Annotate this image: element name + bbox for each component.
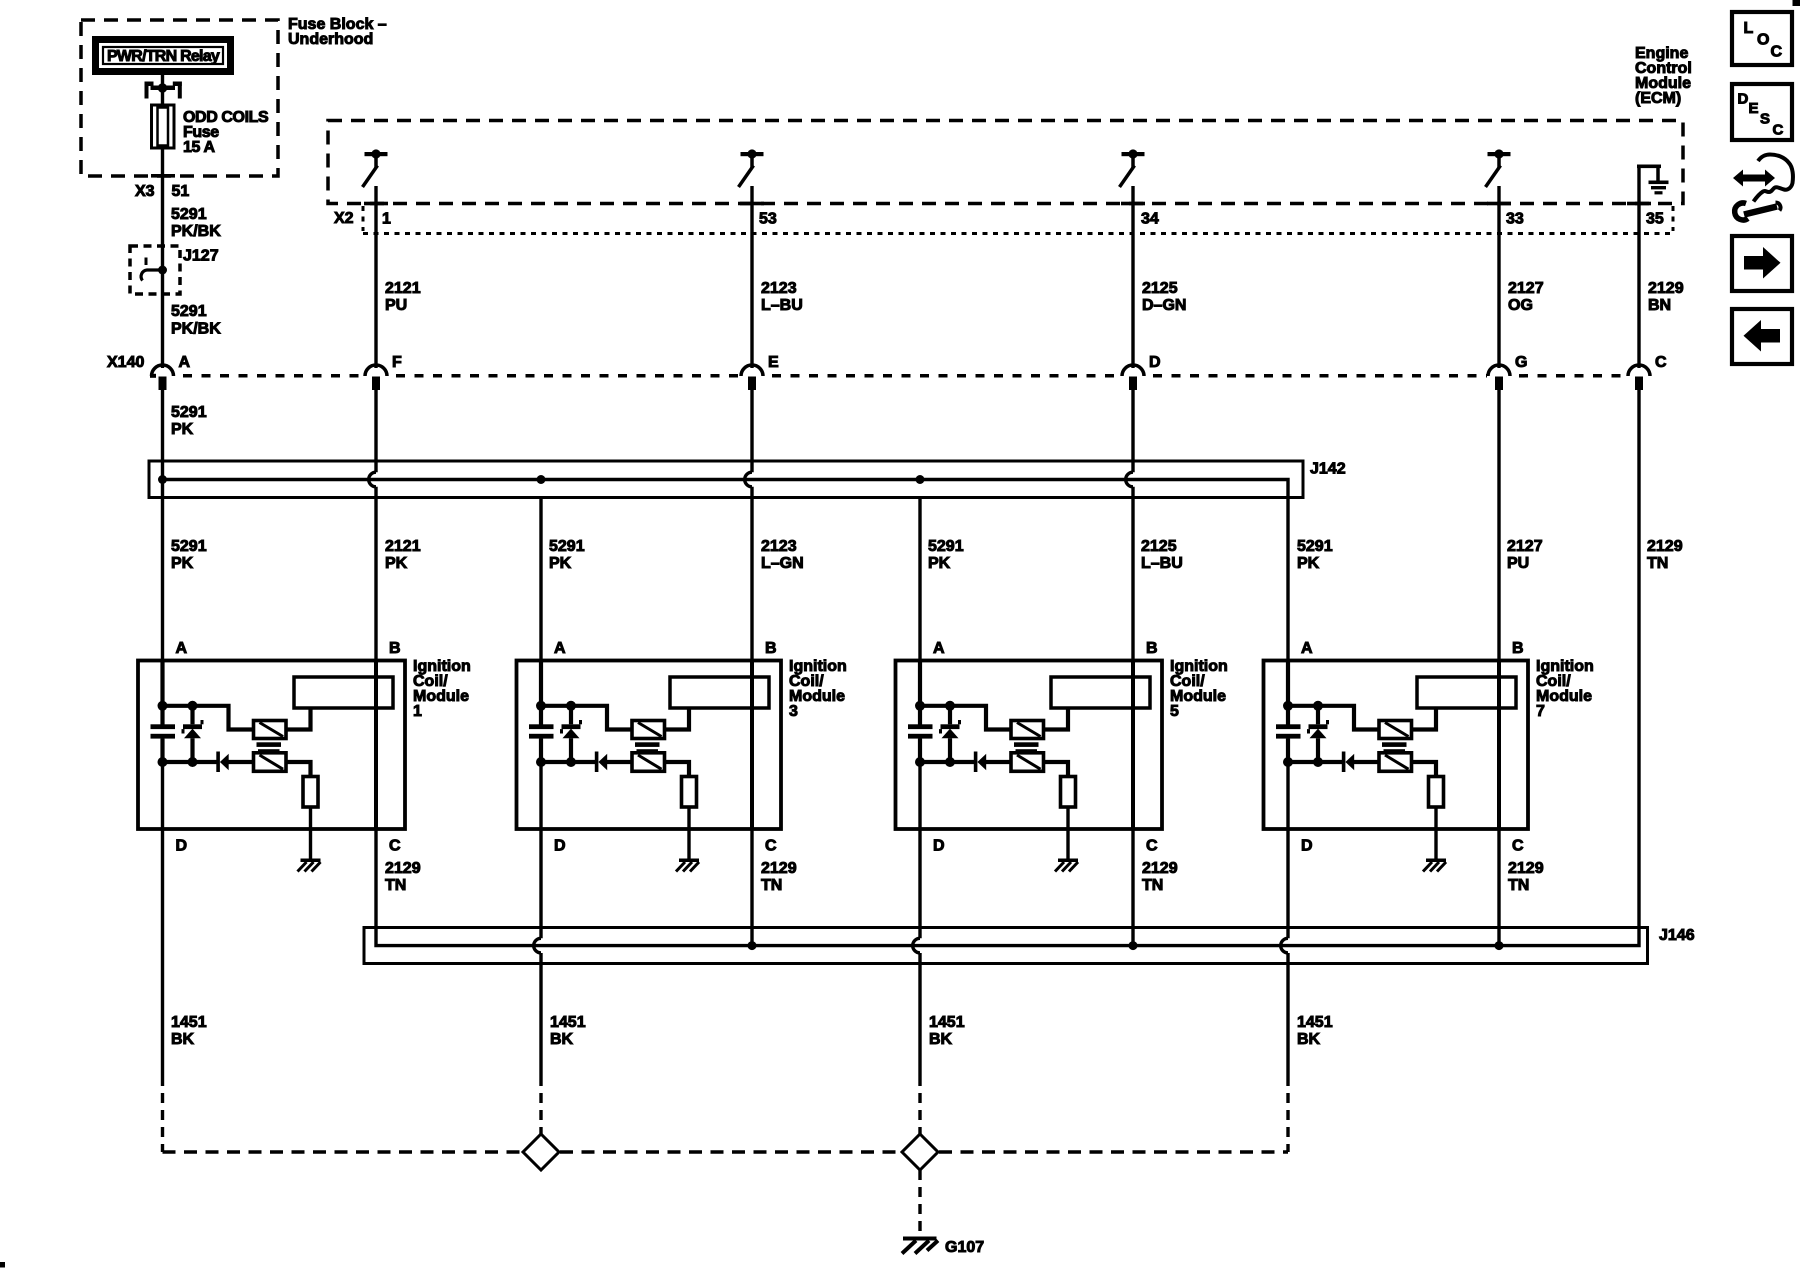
connector X140 pin A xyxy=(152,354,191,390)
wire 2127 OG (ECM 33 to X140 G) xyxy=(1497,186,1500,368)
label: Fuse Block - Underhood xyxy=(288,16,387,48)
svg-text:C: C xyxy=(1655,354,1667,371)
svg-text:A: A xyxy=(933,640,945,657)
wire 5291 PK/BK (fuse to X140 A) xyxy=(161,148,164,368)
wire below capacitor (module 1) xyxy=(160,739,164,762)
svg-text:BK: BK xyxy=(929,1031,953,1048)
splice S1 (diamond) xyxy=(523,1134,559,1170)
svg-text:TN: TN xyxy=(385,877,406,894)
svg-text:2127: 2127 xyxy=(1507,538,1543,555)
svg-text:2123: 2123 xyxy=(761,280,797,297)
svg-text:5: 5 xyxy=(1170,703,1179,720)
connector X140 pin E xyxy=(741,354,779,390)
svg-text:51: 51 xyxy=(172,183,190,200)
svg-text:D: D xyxy=(1738,91,1749,108)
wire 2121 PK (X140 F to module1 B, hop over J142) xyxy=(369,390,376,929)
wire 5291 PK (J142 to module5 A) xyxy=(918,498,921,728)
svg-text:2125: 2125 xyxy=(1141,538,1177,555)
svg-text:C: C xyxy=(765,838,777,855)
svg-text:15 A: 15 A xyxy=(183,139,215,156)
svg-text:S: S xyxy=(1760,111,1770,128)
driver block (module 7 lower) xyxy=(1379,753,1412,772)
wire 5291 PK (X140 A through J142 to module1 A) xyxy=(161,390,164,727)
wire label 2129 TN (module 5 pin C) xyxy=(1142,860,1178,894)
resistor R5 xyxy=(1061,777,1076,808)
pin label X3 / 51 xyxy=(135,183,189,200)
svg-text:Underhood: Underhood xyxy=(288,31,373,48)
wire pin B through module 1 xyxy=(374,660,378,829)
svg-text:2121: 2121 xyxy=(385,538,421,555)
wire (module 1 top row) xyxy=(163,706,254,730)
svg-text:F: F xyxy=(392,354,402,371)
svg-text:D: D xyxy=(933,838,945,855)
ignition coil/module 1 (box) xyxy=(138,661,405,830)
wire 2123 L-BU (ECM 53 to X140 E) xyxy=(750,186,753,368)
wire label 5291 PK/BK (lower) xyxy=(171,303,221,338)
wire label 5291 PK xyxy=(171,404,207,438)
wire pin A into module 1 xyxy=(160,660,164,727)
wire label 2123 L–GN xyxy=(761,538,804,572)
svg-text:1451: 1451 xyxy=(171,1014,207,1031)
chassis ground (module 1) xyxy=(298,859,321,872)
junction (module5 C to J146) xyxy=(1129,941,1138,950)
wire (module 7 top row) xyxy=(1288,706,1379,730)
wire label 2129 BN xyxy=(1648,280,1684,314)
sidebar DESC box xyxy=(1732,84,1792,140)
svg-text:34: 34 xyxy=(1141,211,1159,228)
wire label 2121 PK xyxy=(385,538,421,572)
svg-text:OG: OG xyxy=(1508,297,1533,314)
wire (resistor to ground, module 1) xyxy=(309,807,312,859)
svg-text:C: C xyxy=(1146,838,1158,855)
svg-text:PK: PK xyxy=(171,555,194,572)
wire 1451 BK (module5 D, dashed) xyxy=(918,1076,921,1135)
wire (resistor to ground, module 5) xyxy=(1066,807,1069,859)
svg-text:TN: TN xyxy=(1647,555,1668,572)
corner mark (top right) xyxy=(1793,0,1800,6)
connector X140 pin D xyxy=(1122,354,1161,390)
wire label 1451 BK xyxy=(550,1014,586,1048)
tick: wire crossing fuse block edge xyxy=(151,174,175,178)
svg-text:C: C xyxy=(1773,122,1784,139)
svg-text:B: B xyxy=(1512,640,1524,657)
svg-text:J142: J142 xyxy=(1310,461,1346,478)
label: Ignition Coil/Module 7 xyxy=(1536,658,1594,720)
svg-text:C: C xyxy=(389,838,401,855)
svg-text:(ECM): (ECM) xyxy=(1635,90,1681,107)
zener diode VR7 xyxy=(1309,706,1328,762)
svg-text:D: D xyxy=(1149,354,1161,371)
svg-text:B: B xyxy=(1146,640,1158,657)
svg-text:2129: 2129 xyxy=(1142,860,1178,877)
svg-text:TN: TN xyxy=(1508,877,1529,894)
label: ODD COILS Fuse 15 A xyxy=(183,109,269,156)
splice run (dashed horizontal) xyxy=(163,1150,1289,1153)
diode D1 xyxy=(216,752,228,773)
svg-text:D: D xyxy=(554,838,566,855)
svg-text:BK: BK xyxy=(550,1031,574,1048)
junction (module7 C to J146) xyxy=(1495,941,1504,950)
corner mark (bottom left) xyxy=(0,1262,5,1268)
svg-text:BK: BK xyxy=(1297,1031,1321,1048)
connector X2 row (dashed + dotted) xyxy=(363,206,1673,234)
junction dots (module 7) xyxy=(1283,701,1323,767)
sidebar next-arrow box xyxy=(1732,236,1792,291)
svg-text:PK: PK xyxy=(171,421,194,438)
sidebar diagnostic icon (arrow + wrench) xyxy=(1733,155,1793,221)
svg-text:D–GN: D–GN xyxy=(1142,297,1186,314)
pin numbers 1 53 34 33 35 xyxy=(382,211,1664,228)
diode D3 xyxy=(595,752,607,773)
wire label 5291 PK/BK (upper) xyxy=(171,206,221,240)
svg-text:C: C xyxy=(1771,44,1783,61)
svg-text:J127: J127 xyxy=(183,248,219,265)
resistor R7 xyxy=(1429,777,1444,808)
svg-text:L–BU: L–BU xyxy=(1141,555,1183,572)
wire 1451 BK (module7 D, dashed) xyxy=(1286,1076,1289,1152)
ignition coil/module 3 (box) xyxy=(517,661,782,830)
resistor R3 xyxy=(682,777,697,808)
sidebar back-arrow box xyxy=(1732,309,1792,364)
junction (A wire to J142) xyxy=(158,475,167,484)
driver U1 (ECM pin 1) xyxy=(363,149,388,187)
svg-text:BN: BN xyxy=(1648,297,1671,314)
svg-text:5291: 5291 xyxy=(171,206,207,223)
svg-text:35: 35 xyxy=(1646,211,1664,228)
svg-text:PU: PU xyxy=(1507,555,1529,572)
svg-text:PK: PK xyxy=(549,555,572,572)
capacitor C1 xyxy=(151,724,176,738)
svg-text:A: A xyxy=(1301,640,1313,657)
wire label 5291 PK xyxy=(928,538,964,572)
svg-text:J146: J146 xyxy=(1659,927,1695,944)
svg-text:E: E xyxy=(1749,100,1759,117)
wire pin A into module 5 xyxy=(918,660,922,727)
wire label 5291 PK xyxy=(171,538,207,572)
wire 2129 TN (X140 C to J146) xyxy=(1637,390,1640,929)
wire (module 5 lower row) xyxy=(920,760,1011,764)
junction dots (module 5) xyxy=(915,701,955,767)
svg-text:PK/BK: PK/BK xyxy=(171,223,221,240)
svg-text:PK: PK xyxy=(928,555,951,572)
wire (module 5 top row) xyxy=(920,706,1011,730)
fuse clip terminals xyxy=(145,82,182,99)
coil primary L7 xyxy=(1417,677,1516,708)
wire (driver to coil, module 7) xyxy=(1412,708,1437,730)
label: Ignition Coil/Module 1 xyxy=(413,658,471,720)
connector X140 pin G xyxy=(1488,354,1527,390)
svg-text:PK: PK xyxy=(385,555,408,572)
fuse F1 ODD COILS 15 A xyxy=(152,105,175,148)
zener diode VR3 xyxy=(562,706,581,762)
svg-text:1451: 1451 xyxy=(1297,1014,1333,1031)
zener diode VR1 xyxy=(183,706,202,762)
svg-text:D: D xyxy=(176,838,188,855)
svg-text:2129: 2129 xyxy=(1647,538,1683,555)
wire (module5 A line to D) xyxy=(913,739,920,1076)
splice J127 (dashed box) xyxy=(130,246,180,294)
isolation bars (module 5) xyxy=(1014,742,1039,753)
svg-text:PK/BK: PK/BK xyxy=(171,321,221,338)
wire (module 3 top row) xyxy=(541,706,632,730)
driver block (module 7 upper) xyxy=(1379,721,1412,739)
resistor R1 xyxy=(303,777,318,808)
ground (ECM internal, pin 35) xyxy=(1637,165,1669,195)
svg-text:E: E xyxy=(768,354,779,371)
wire (module 1 lower row) xyxy=(163,760,254,764)
wire label 2123 L-BU xyxy=(761,280,803,314)
J146 internal bus wire xyxy=(376,927,1639,946)
svg-text:5291: 5291 xyxy=(1297,538,1333,555)
capacitor C5 xyxy=(908,724,933,738)
junction dots (module 3) xyxy=(536,701,576,767)
junction (J142 to module 3 feed) xyxy=(537,475,546,484)
wire 1451 BK (module3 D, dashed) xyxy=(539,1076,542,1135)
wire below capacitor (module 5) xyxy=(918,739,922,762)
ignition coil/module 5 (box) xyxy=(896,661,1163,830)
junction dots (module 1) xyxy=(158,701,198,767)
isolation bars (module 3) xyxy=(635,742,660,753)
svg-text:2129: 2129 xyxy=(1508,860,1544,877)
wire label 2121 PU xyxy=(385,280,421,314)
svg-text:1451: 1451 xyxy=(929,1014,965,1031)
svg-text:1: 1 xyxy=(382,211,391,228)
svg-text:2129: 2129 xyxy=(1648,280,1684,297)
svg-text:2125: 2125 xyxy=(1142,280,1178,297)
sidebar LOC box xyxy=(1732,12,1792,65)
wire 2125 L-BU (X140 D to module5 B, hop over J142) xyxy=(1126,390,1133,946)
svg-text:1451: 1451 xyxy=(550,1014,586,1031)
wire pin B through module 5 xyxy=(1131,660,1135,829)
connector X140 pin F xyxy=(365,354,402,390)
wire (resistor to ground, module 3) xyxy=(687,807,690,859)
wire label 2125 D-GN xyxy=(1142,280,1186,314)
svg-text:5291: 5291 xyxy=(171,303,207,320)
svg-text:G: G xyxy=(1515,354,1527,371)
wire (driver to coil, module 3) xyxy=(665,708,690,730)
connector X140 pin C xyxy=(1628,354,1667,390)
svg-text:L–BU: L–BU xyxy=(761,297,803,314)
driver block (module 1 lower) xyxy=(254,753,287,772)
connector X140 dashed row xyxy=(150,374,1627,378)
chassis ground (module 3) xyxy=(676,859,699,872)
wire label 2129 TN (module 3 pin C) xyxy=(761,860,797,894)
ticks: wires crossing ECM edge xyxy=(364,202,1651,206)
wire label 2125 L–BU xyxy=(1141,538,1183,572)
driver block (module 3 upper) xyxy=(632,721,665,739)
chassis ground (module 7) xyxy=(1423,859,1446,872)
wire 2125 D-GN (ECM 34 to X140 D) xyxy=(1131,186,1134,368)
svg-text:2129: 2129 xyxy=(761,860,797,877)
svg-text:C: C xyxy=(1512,838,1524,855)
wire (driver to resistor, module 1) xyxy=(286,762,311,777)
wire (resistor to ground, module 7) xyxy=(1434,807,1437,859)
label: Ignition Coil/Module 5 xyxy=(1170,658,1228,720)
label: Engine Control Module (ECM) xyxy=(1635,45,1692,107)
diode D7 xyxy=(1342,752,1354,773)
wire (driver to coil, module 1) xyxy=(286,708,311,730)
svg-text:5291: 5291 xyxy=(171,538,207,555)
svg-text:TN: TN xyxy=(761,877,782,894)
junction (J142 to module 5 feed) xyxy=(916,475,925,484)
wire pin A into module 3 xyxy=(539,660,543,727)
driver block (module 5 lower) xyxy=(1011,753,1044,772)
fuse block underhood (dashed enclosure) xyxy=(81,20,278,176)
wire (splice to ground G107, dashed) xyxy=(918,1170,921,1236)
svg-text:X3: X3 xyxy=(135,183,155,200)
svg-text:B: B xyxy=(765,640,777,657)
wire below capacitor (module 3) xyxy=(539,739,543,762)
wire label 1451 BK xyxy=(1297,1014,1333,1048)
wire (driver to resistor, module 5) xyxy=(1044,762,1069,777)
ground G107 xyxy=(902,1237,938,1254)
wire 5291 PK (J142 to module3 A) xyxy=(539,498,542,728)
svg-text:L–GN: L–GN xyxy=(761,555,804,572)
wire label 2127 PU xyxy=(1507,538,1543,572)
coil primary L3 xyxy=(670,677,769,708)
svg-text:53: 53 xyxy=(759,211,777,228)
svg-text:2129: 2129 xyxy=(385,860,421,877)
svg-text:3: 3 xyxy=(789,703,798,720)
splice pack J142 (bus) xyxy=(149,461,1303,498)
wire (relay to fuse) xyxy=(161,75,164,105)
wire (driver to resistor, module 7) xyxy=(1412,762,1437,777)
J142 internal bus wire xyxy=(163,480,1289,501)
wire label 2129 TN (module 7 pin C) xyxy=(1508,860,1544,894)
wire (driver to resistor, module 3) xyxy=(665,762,690,777)
wire label 5291 PK xyxy=(1297,538,1333,572)
relay K1 PWR/TRN Relay xyxy=(96,40,231,72)
svg-text:PK: PK xyxy=(1297,555,1320,572)
chassis ground (module 5) xyxy=(1055,859,1078,872)
junction (module3 C to J146) xyxy=(748,941,757,950)
svg-text:PWR/TRN Relay: PWR/TRN Relay xyxy=(107,48,220,65)
engine control module ECM (dashed enclosure) xyxy=(328,121,1683,204)
wire (driver to coil, module 5) xyxy=(1044,708,1069,730)
coil primary L5 xyxy=(1051,677,1150,708)
wire label 1451 BK xyxy=(929,1014,965,1048)
svg-text:2127: 2127 xyxy=(1508,280,1544,297)
svg-text:A: A xyxy=(179,354,191,371)
svg-text:A: A xyxy=(176,640,188,657)
wire 5291 PK (J142 to module7 A) xyxy=(1286,500,1289,727)
wire 2121 PU (ECM 1 to X140 F) xyxy=(374,186,377,368)
capacitor C3 xyxy=(529,724,554,738)
capacitor C7 xyxy=(1276,724,1301,738)
svg-text:2121: 2121 xyxy=(385,280,421,297)
label: Ignition Coil/Module 3 xyxy=(789,658,847,720)
svg-text:L: L xyxy=(1744,20,1754,37)
svg-text:BK: BK xyxy=(171,1031,195,1048)
driver block (module 3 lower) xyxy=(632,753,665,772)
svg-text:B: B xyxy=(389,640,401,657)
driver U3 (ECM pin 34) xyxy=(1120,149,1145,187)
svg-text:5291: 5291 xyxy=(549,538,585,555)
driver block (module 5 upper) xyxy=(1011,721,1044,739)
svg-text:O: O xyxy=(1757,32,1769,49)
svg-text:TN: TN xyxy=(1142,877,1163,894)
wire label 2129 TN xyxy=(1647,538,1683,572)
isolation bars (module 7) xyxy=(1382,742,1407,753)
splice pack J146 (bus) xyxy=(364,928,1648,964)
svg-text:X2: X2 xyxy=(334,210,354,227)
svg-text:5291: 5291 xyxy=(171,404,207,421)
svg-text:PU: PU xyxy=(385,297,407,314)
driver U2 (ECM pin 53) xyxy=(739,149,764,187)
zener diode VR5 xyxy=(941,706,960,762)
wire (module 7 lower row) xyxy=(1288,760,1379,764)
ignition coil/module 7 (box) xyxy=(1264,661,1529,830)
wire label 1451 BK xyxy=(171,1014,207,1048)
wire 2127 PU (X140 G to module7 B) xyxy=(1497,390,1500,946)
wire pin B through module 3 xyxy=(750,660,754,829)
svg-text:X140: X140 xyxy=(107,354,144,371)
svg-text:33: 33 xyxy=(1506,211,1524,228)
wire 1451 BK (module1 D, dashed to splice run) xyxy=(161,1076,164,1152)
wire (module3 A line to D) xyxy=(534,739,541,1076)
wire 2129 BN (ECM 35 to X140 C) xyxy=(1637,167,1640,369)
wire (module 3 lower row) xyxy=(541,760,632,764)
wire 2123 L-GN (X140 E to module3 B, hop over J142) xyxy=(745,390,752,946)
svg-text:5291: 5291 xyxy=(928,538,964,555)
svg-text:7: 7 xyxy=(1536,703,1545,720)
wire pin B through module 7 xyxy=(1497,660,1501,829)
driver U4 (ECM pin 33) xyxy=(1486,149,1511,187)
wire below capacitor (module 7) xyxy=(1286,739,1290,762)
driver block (module 1 upper) xyxy=(254,721,287,739)
wire pin A into module 7 xyxy=(1286,660,1290,727)
svg-text:2123: 2123 xyxy=(761,538,797,555)
wire (module7 A line to D) xyxy=(1281,739,1288,1076)
svg-text:1: 1 xyxy=(413,703,422,720)
svg-text:A: A xyxy=(554,640,566,657)
isolation bars (module 1) xyxy=(257,742,282,753)
svg-text:G107: G107 xyxy=(945,1239,984,1256)
wire label 2127 OG xyxy=(1508,280,1544,314)
wire label 5291 PK xyxy=(549,538,585,572)
diode D5 xyxy=(974,752,986,773)
splice S2 (diamond) xyxy=(902,1134,938,1170)
wire label 2129 TN (module 1 pin C) xyxy=(385,860,421,894)
wire (module1 A line to D) xyxy=(161,739,164,1076)
coil primary L1 xyxy=(294,677,393,708)
svg-text:D: D xyxy=(1301,838,1313,855)
